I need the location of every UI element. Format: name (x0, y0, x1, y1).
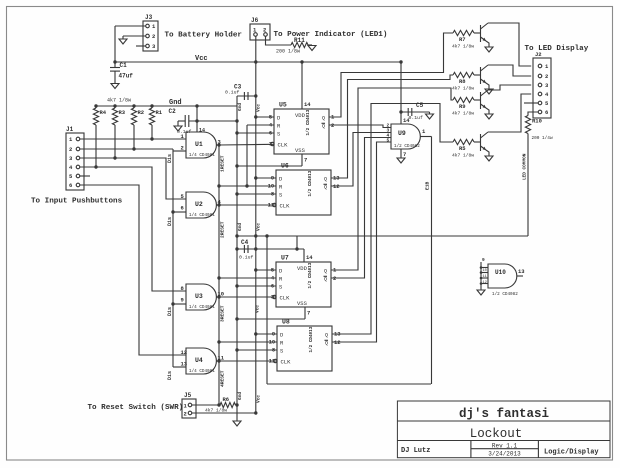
svg-text:R7: R7 (459, 36, 466, 43)
svg-text:4k7 1/8w: 4k7 1/8w (452, 44, 474, 50)
svg-text:Gnd: Gnd (237, 103, 243, 111)
svg-text:1RESET: 1RESET (220, 155, 226, 172)
svg-text:Lockout: Lockout (470, 427, 523, 441)
svg-text:R6: R6 (223, 396, 230, 403)
svg-text:4k7 1/8w: 4k7 1/8w (452, 111, 474, 117)
svg-text:U10: U10 (495, 269, 506, 276)
svg-text:6: 6 (69, 182, 72, 189)
svg-text:Q: Q (324, 277, 327, 283)
svg-text:U5: U5 (279, 102, 287, 109)
svg-text:Dis: Dis (167, 371, 173, 380)
svg-text:11: 11 (483, 275, 487, 279)
svg-text:Q: Q (324, 177, 327, 183)
svg-text:0.1uf: 0.1uf (225, 90, 240, 96)
svg-text:1/2 CD4013: 1/2 CD4013 (308, 170, 313, 196)
svg-text:1/2 CD4082: 1/2 CD4082 (394, 144, 420, 149)
svg-text:4k7 1/8w: 4k7 1/8w (452, 86, 474, 92)
svg-text:J2: J2 (535, 51, 542, 58)
svg-text:13: 13 (181, 361, 188, 368)
svg-text:Dis: Dis (167, 217, 173, 226)
svg-text:4k7 1/8w: 4k7 1/8w (107, 98, 131, 104)
svg-text:Q: Q (325, 333, 328, 339)
svg-text:47uf: 47uf (119, 73, 134, 80)
svg-text:C5: C5 (416, 102, 424, 109)
svg-text:U4: U4 (195, 357, 203, 364)
svg-text:C2: C2 (169, 108, 177, 115)
svg-text:1/4 CD4081: 1/4 CD4081 (189, 213, 215, 218)
svg-text:11: 11 (269, 358, 276, 365)
svg-text:LED COMMON: LED COMMON (523, 153, 528, 180)
svg-text:0.1uf: 0.1uf (409, 115, 424, 121)
svg-text:1/2 CD4013: 1/2 CD4013 (306, 109, 311, 135)
svg-text:U7: U7 (281, 255, 289, 262)
svg-text:J6: J6 (251, 17, 259, 24)
svg-text:R10: R10 (532, 118, 542, 125)
svg-text:1/2 CD4013: 1/2 CD4013 (309, 326, 314, 352)
svg-text:Rev 1.1: Rev 1.1 (492, 442, 518, 449)
svg-text:U1: U1 (195, 141, 203, 148)
svg-text:E1B: E1B (425, 181, 431, 190)
svg-text:VDD: VDD (297, 265, 308, 272)
svg-text:12: 12 (181, 349, 188, 356)
svg-text:DJ Lutz: DJ Lutz (401, 447, 430, 455)
svg-text:9: 9 (482, 257, 485, 263)
svg-text:C3: C3 (234, 84, 242, 91)
svg-text:To Battery Holder: To Battery Holder (165, 32, 243, 40)
svg-text:C1: C1 (120, 62, 128, 69)
svg-text:U9: U9 (398, 130, 406, 137)
svg-text:14: 14 (306, 254, 313, 261)
svg-text:R2: R2 (138, 109, 145, 116)
svg-text:7: 7 (307, 310, 310, 317)
svg-text:Vcc: Vcc (255, 305, 261, 313)
svg-text:Logic/Display: Logic/Display (544, 448, 599, 456)
svg-text:4k7 1/8w: 4k7 1/8w (452, 153, 474, 159)
svg-text:CLK: CLK (278, 141, 289, 148)
svg-text:11: 11 (268, 202, 275, 209)
svg-text:Gnd: Gnd (237, 392, 243, 400)
svg-text:2: 2 (152, 33, 155, 40)
svg-text:6: 6 (545, 109, 548, 116)
svg-text:14: 14 (304, 101, 311, 108)
svg-text:To Input Pushbuttons: To Input Pushbuttons (31, 198, 123, 206)
svg-text:200 1/4w: 200 1/4w (532, 136, 553, 141)
svg-text:3RESET: 3RESET (220, 305, 226, 322)
svg-text:2: 2 (181, 145, 184, 152)
svg-text:0.1uf: 0.1uf (239, 255, 254, 261)
svg-text:3/24/2013: 3/24/2013 (488, 451, 521, 458)
svg-text:Vcc: Vcc (195, 55, 208, 63)
svg-text:200 1/8w: 200 1/8w (276, 49, 300, 55)
svg-text:10: 10 (483, 269, 487, 273)
svg-text:Q: Q (324, 269, 327, 275)
svg-text:14: 14 (199, 128, 205, 134)
svg-text:J1: J1 (66, 126, 74, 133)
svg-text:U2: U2 (195, 201, 203, 208)
svg-text:R8: R8 (459, 78, 466, 85)
svg-text:2: 2 (184, 411, 187, 418)
svg-text:Gnd: Gnd (169, 99, 182, 107)
svg-text:5: 5 (387, 138, 390, 144)
svg-text:1/2 CD4082: 1/2 CD4082 (492, 292, 518, 297)
svg-text:dj's fantasi: dj's fantasi (459, 407, 549, 421)
svg-text:U3: U3 (195, 293, 203, 300)
svg-text:1/4 CD4081: 1/4 CD4081 (189, 305, 215, 310)
svg-text:4RESET: 4RESET (220, 370, 226, 387)
svg-text:R4: R4 (100, 109, 107, 116)
svg-text:VDD: VDD (295, 112, 306, 119)
svg-text:VSS: VSS (297, 300, 308, 307)
svg-text:To Power Indicator (LED1): To Power Indicator (LED1) (274, 31, 388, 39)
svg-text:Vcc: Vcc (256, 395, 262, 403)
svg-text:J5: J5 (184, 392, 192, 399)
svg-text:1/4 CD4081: 1/4 CD4081 (189, 369, 215, 374)
svg-text:6: 6 (181, 205, 184, 212)
svg-text:Q: Q (322, 124, 325, 130)
svg-text:J3: J3 (145, 14, 153, 21)
svg-text:2RESET: 2RESET (220, 221, 226, 238)
svg-text:CLK: CLK (281, 358, 292, 365)
svg-text:Q: Q (325, 341, 328, 347)
svg-text:Q: Q (324, 185, 327, 191)
svg-text:7: 7 (403, 151, 406, 158)
svg-text:R3: R3 (119, 109, 126, 116)
svg-text:CLK: CLK (280, 294, 291, 301)
svg-text:Dis: Dis (167, 154, 173, 163)
svg-text:Dis: Dis (167, 307, 173, 316)
svg-text:12: 12 (483, 281, 487, 285)
svg-text:R9: R9 (459, 103, 466, 110)
svg-text:R1: R1 (156, 109, 163, 116)
svg-text:7: 7 (304, 157, 307, 164)
svg-text:C4: C4 (241, 239, 249, 246)
svg-text:Vcc: Vcc (256, 223, 262, 231)
svg-text:1/2 CD4013: 1/2 CD4013 (308, 262, 313, 288)
svg-text:13: 13 (518, 268, 525, 275)
svg-text:R5: R5 (459, 145, 466, 152)
svg-text:To Reset Switch (SWR): To Reset Switch (SWR) (88, 404, 184, 412)
svg-text:2: 2 (69, 146, 72, 153)
svg-text:Gnd: Gnd (237, 223, 243, 231)
svg-text:Vcc: Vcc (256, 104, 262, 112)
svg-text:2: 2 (545, 73, 548, 80)
svg-text:9: 9 (181, 297, 184, 304)
svg-text:Q: Q (322, 116, 325, 122)
svg-text:CLK: CLK (280, 202, 291, 209)
svg-text:VSS: VSS (295, 147, 306, 154)
svg-text:1/4 CD4081: 1/4 CD4081 (189, 153, 215, 158)
